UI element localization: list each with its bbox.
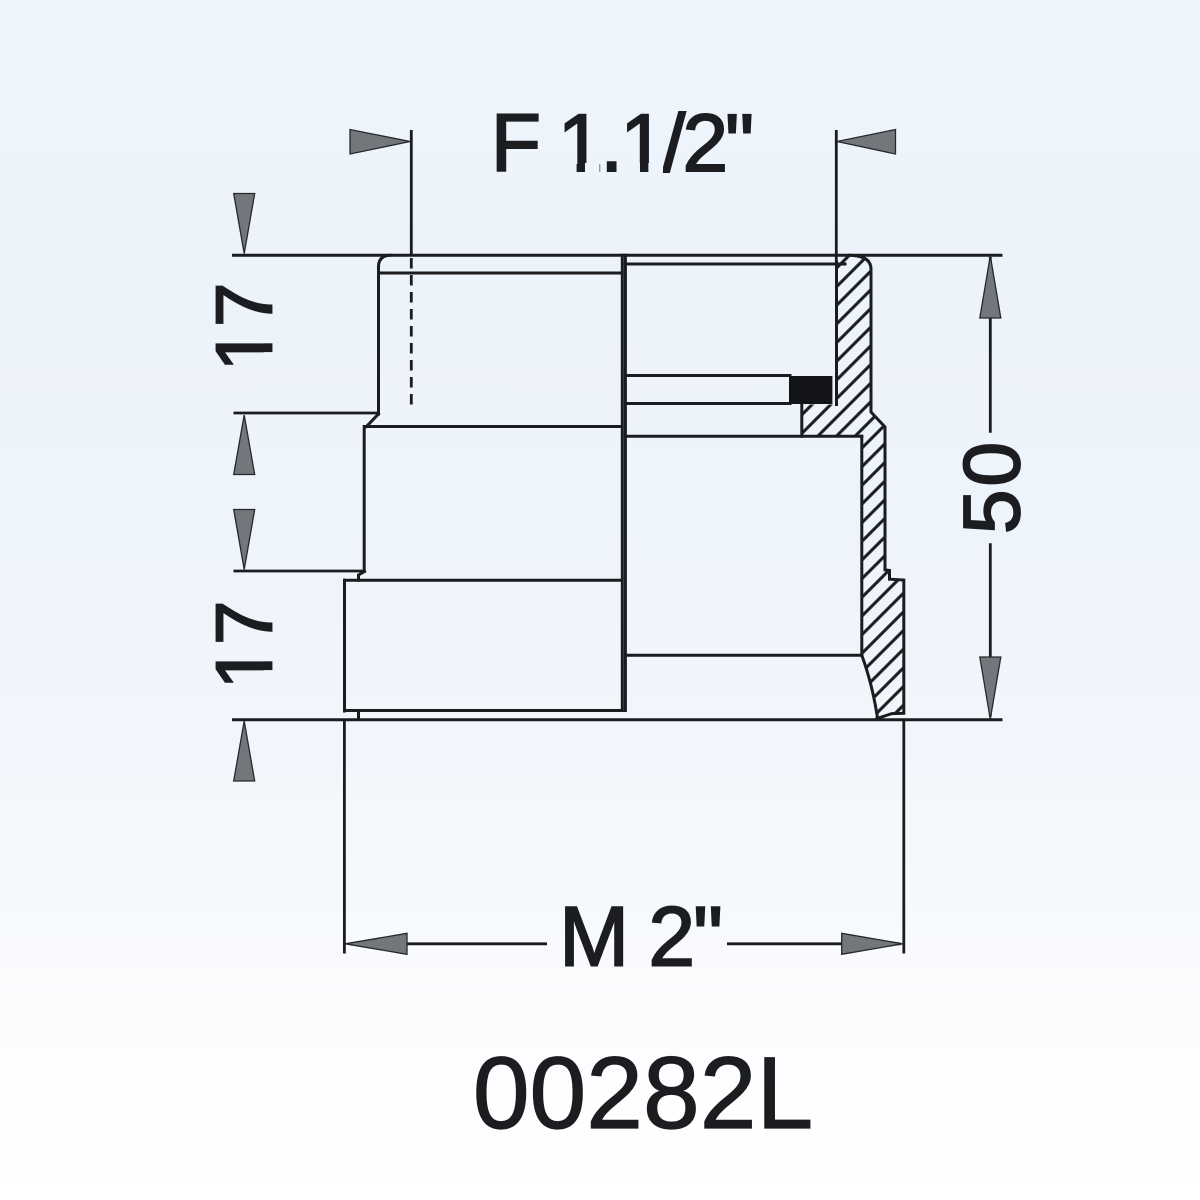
M2 right extension bbox=[902, 720, 905, 954]
left view: bottom chamfer silhouette bbox=[357, 711, 360, 719]
serif patch: upper 17 digit 1 feet bbox=[264, 352, 274, 368]
view boundary vertical right bbox=[624, 255, 627, 710]
part outline strokes bbox=[234, 255, 1002, 720]
right section: outer profile bbox=[849, 255, 904, 718]
left view: rounded top-left corner bbox=[379, 255, 391, 267]
right section: hatch band left vertical bbox=[800, 405, 803, 437]
dimension lines bbox=[234, 130, 991, 954]
serif patch: lower 17 digit 1 feet bbox=[264, 670, 274, 686]
right section: taper inner boundary bbox=[862, 655, 878, 716]
svg-text:00282L: 00282L bbox=[473, 1036, 813, 1150]
right section: thread band bottom line bbox=[625, 402, 790, 405]
F dim left arrow bbox=[350, 130, 410, 155]
top edge line A (part top + dim extensions both sides) bbox=[234, 254, 1002, 257]
black seal rectangle bbox=[789, 376, 832, 404]
left view: section3 left edge bbox=[343, 580, 346, 711]
right section: thread band top line bbox=[625, 374, 790, 377]
M2 dim line left segment bbox=[350, 942, 547, 945]
arrows bbox=[234, 130, 1001, 955]
right section: inner top chamfer line bbox=[625, 263, 845, 266]
50 dim line lower segment bbox=[989, 543, 992, 716]
serif patch: F-label second 1, right foot bbox=[648, 163, 663, 173]
left view: inner top chamfer line bbox=[380, 272, 622, 275]
50 up arrow bbox=[980, 256, 1001, 318]
svg-text:F 1.1/2": F 1.1/2" bbox=[491, 98, 751, 189]
left view: section2 left edge bbox=[363, 427, 366, 572]
svg-text:17: 17 bbox=[200, 283, 289, 372]
right section: lower shoulder line bbox=[625, 654, 861, 657]
left view: section3 top edge bbox=[345, 579, 622, 582]
bottom edge line D (part bottom + dim extensions both sides) bbox=[234, 718, 1002, 721]
svg-text:17: 17 bbox=[200, 601, 289, 690]
17 top: down arrow above line A bbox=[234, 194, 255, 254]
svg-text:M 2": M 2" bbox=[559, 890, 721, 984]
serif patch: F-label first 1, right foot bbox=[585, 163, 600, 173]
hidden thread dashed line bbox=[410, 258, 413, 407]
right section: interior wall vertical bbox=[860, 436, 863, 655]
right section: wall inner vertical bbox=[835, 262, 838, 405]
serif patch: F-label second 1, left foot bbox=[624, 163, 640, 173]
left view: section2 top edge bbox=[365, 425, 622, 428]
patches: remove Liberation Sans foot serif on "1" glyphs (target font has footless 1) bbox=[264, 163, 663, 686]
serif patch: F-label first 1, left foot bbox=[561, 163, 577, 173]
M2 dim line right segment bbox=[727, 942, 900, 945]
left view: bottom chamfer circle line bbox=[345, 709, 623, 712]
left view: jog section2->3 bbox=[359, 572, 365, 581]
M2 left arrow bbox=[345, 933, 407, 954]
50 dim line upper segment bbox=[989, 257, 992, 433]
F dim right arrow bbox=[837, 130, 896, 155]
dim line C (17 bottom) bbox=[234, 570, 365, 573]
left view: chamfer section1->2 bbox=[367, 414, 379, 427]
M2 left extension bbox=[343, 720, 346, 954]
17 top: up arrow below line B bbox=[234, 415, 255, 475]
17 bottom: down arrow above line C bbox=[234, 510, 255, 570]
hatched section wall (right half section) bbox=[802, 255, 904, 718]
right section: shoulder line bbox=[625, 435, 861, 438]
17 bottom: up arrow below line D bbox=[234, 721, 255, 781]
F dim left extension bbox=[410, 130, 413, 255]
M2 right arrow bbox=[842, 933, 903, 954]
svg-text:50: 50 bbox=[947, 439, 1036, 534]
view boundary vertical left bbox=[621, 255, 624, 710]
left view: section1 left edge bbox=[377, 267, 380, 414]
dim line B (17 top) bbox=[234, 412, 380, 415]
50 down arrow bbox=[980, 657, 1001, 719]
F dim right extension bbox=[835, 130, 838, 262]
